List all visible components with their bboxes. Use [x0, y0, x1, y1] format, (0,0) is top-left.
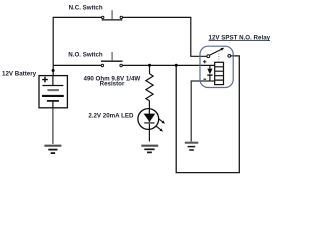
wire top rail right segment + N.C. branch descend + relay left contact feed — [123, 17, 209, 56]
node junction dot above battery — [52, 69, 55, 72]
relay contact pin right — [228, 55, 231, 58]
battery internal positive lead — [52, 76, 54, 86]
wire relay contact output bottom loop — [176, 56, 239, 173]
battery plate 3 long thick — [42, 95, 64, 97]
LED emission arrow 1 — [157, 117, 166, 125]
battery plate 4 short — [47, 100, 59, 102]
svg-text:12V Battery: 12V Battery — [2, 71, 37, 78]
battery plus sign — [42, 77, 48, 83]
svg-text:Resistor: Resistor — [100, 81, 125, 88]
relay movable contact arm — [210, 49, 222, 55]
wire resistor lower lead through LED to ground — [148, 101, 150, 142]
wire relay coil return to middle ground — [191, 81, 215, 142]
LED emission arrow 2 — [155, 125, 164, 133]
svg-text:2.2V 20mA LED: 2.2V 20mA LED — [88, 113, 134, 120]
svg-text:N.C. Switch: N.C. Switch — [69, 4, 103, 11]
relay arm arrowhead — [221, 47, 225, 51]
relay coil minus mark — [204, 78, 207, 80]
node junction dot at bottom loop tap — [175, 64, 178, 67]
relay flyback diode D2 — [207, 65, 212, 81]
switch S1 N.C. pushbutton — [102, 10, 123, 20]
wire resistor branch upper lead — [149, 65, 151, 73]
relay actuation dotted link — [218, 51, 220, 62]
battery plate 1 long — [42, 85, 63, 87]
relay contact pin left — [207, 55, 210, 58]
battery plate 2 short gray — [48, 89, 59, 91]
battery B1 box — [39, 76, 67, 108]
wire N.O. rail left segment — [53, 64, 101, 66]
resistor R1 zigzag — [146, 74, 153, 101]
svg-text:N.O. Switch: N.O. Switch — [68, 52, 103, 59]
LED D1 — [138, 109, 166, 133]
relay coil plus mark — [203, 60, 206, 63]
relay K1 outline box — [200, 46, 233, 87]
node junction dot at resistor tap — [148, 64, 151, 67]
relay coil L1 — [215, 62, 224, 84]
wire battery top vertical + top rail left segment — [53, 17, 101, 75]
wire battery negative lead to ground — [52, 108, 54, 144]
switch S2 N.O. pushbutton — [101, 52, 123, 67]
battery internal negative lead — [52, 101, 54, 108]
wire N.O. rail right segment into relay coil — [122, 64, 215, 66]
ground under LED — [141, 146, 158, 153]
ground under battery — [44, 146, 61, 153]
ground middle (relay coil return) — [185, 143, 199, 150]
